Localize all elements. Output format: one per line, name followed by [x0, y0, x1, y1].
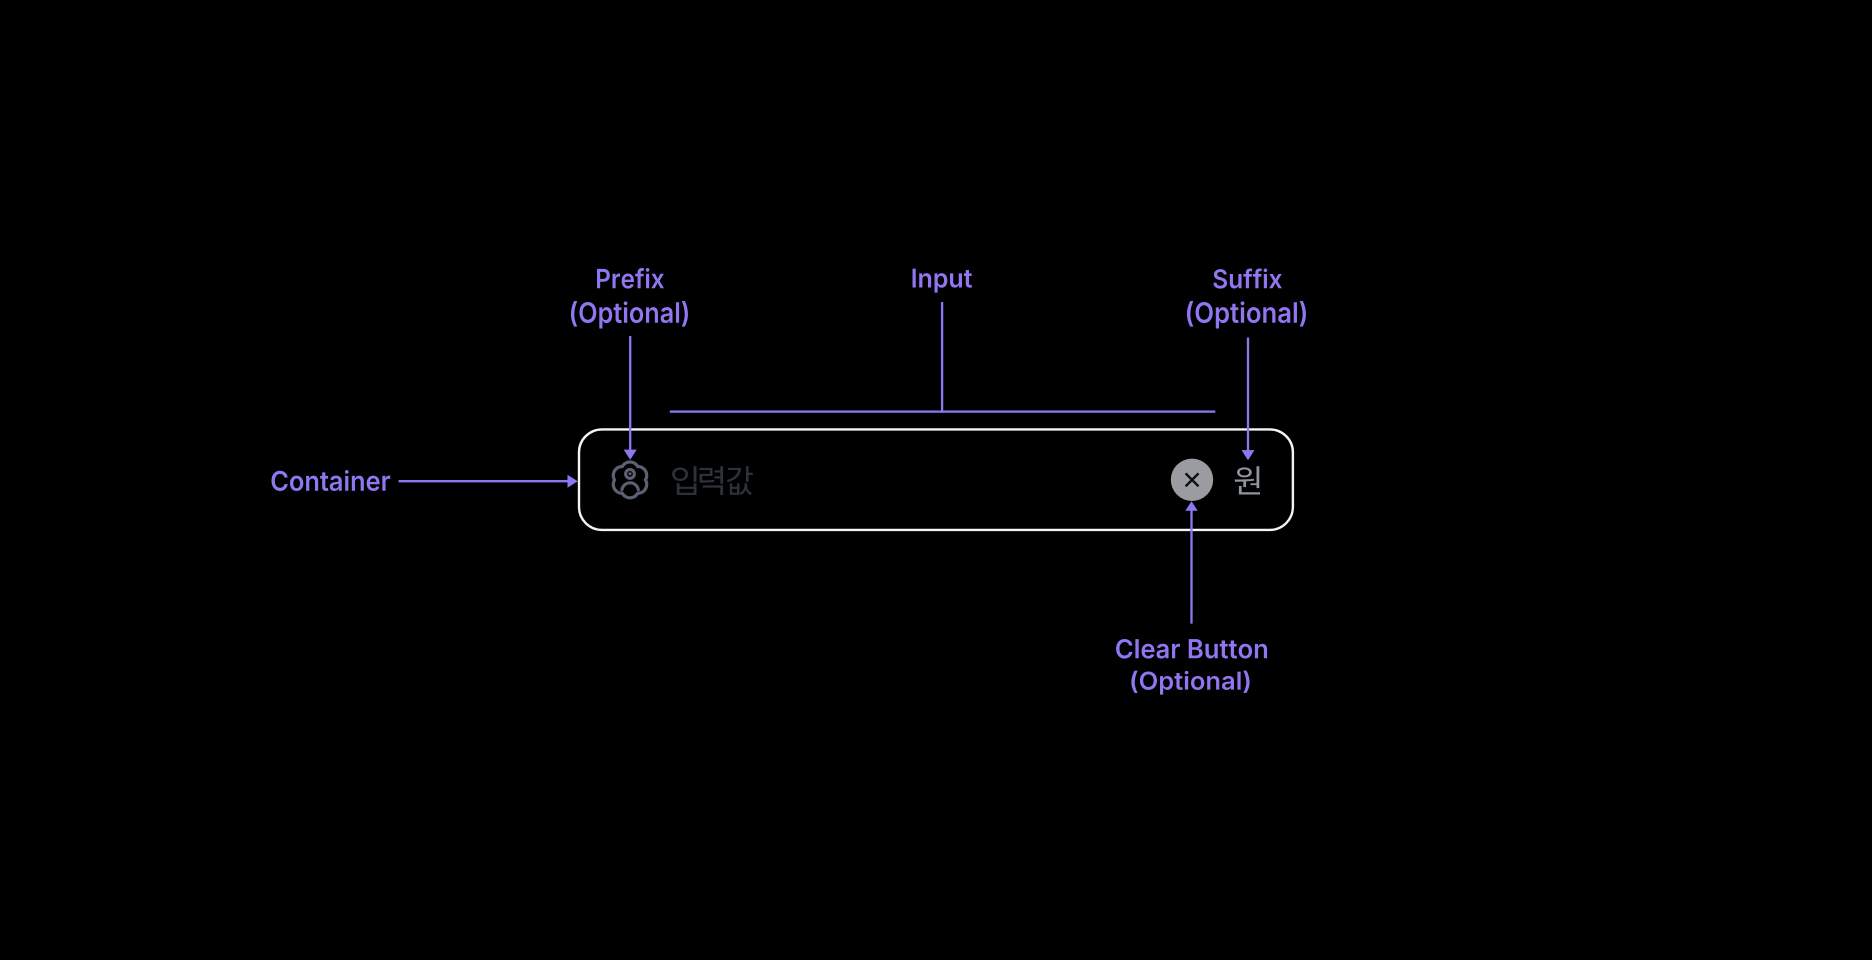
prefix arrowhead: [624, 450, 637, 460]
prefix icon: head ring: [626, 470, 635, 479]
placeholder glyph 입: [672, 466, 696, 495]
prefix icon: head dot: [629, 472, 632, 475]
container rounded rect: [579, 429, 1293, 530]
label Clear Button line2 (Optional): [1131, 671, 1249, 695]
prefix icon: shoulders arc: [622, 483, 638, 490]
label Container: [271, 470, 390, 491]
prefix arrow line: [629, 336, 631, 451]
label Input: [913, 269, 972, 293]
label Clear Button line1: [1116, 639, 1267, 659]
clear button arrowhead: [1185, 501, 1197, 511]
prefix icon: flower badge outline: [613, 462, 646, 498]
label Suffix line2 (Optional): [1187, 301, 1306, 328]
clear button circle: [1171, 459, 1213, 501]
container arrowhead: [568, 475, 578, 488]
suffix arrowhead: [1242, 450, 1255, 460]
suffix glyph 원: [1235, 466, 1260, 494]
container arrow line: [399, 480, 569, 482]
suffix arrow line: [1247, 338, 1249, 452]
input connector vertical line: [941, 302, 943, 413]
clear button arrow line: [1190, 511, 1192, 624]
clear button x mark: [1186, 473, 1199, 486]
label Prefix line1: [597, 268, 664, 289]
label Prefix line2 (Optional): [571, 301, 688, 328]
placeholder glyph 값: [727, 466, 753, 495]
input bracket horizontal line: [670, 410, 1216, 412]
label Suffix line1: [1213, 268, 1282, 288]
placeholder glyph 력: [699, 466, 723, 495]
